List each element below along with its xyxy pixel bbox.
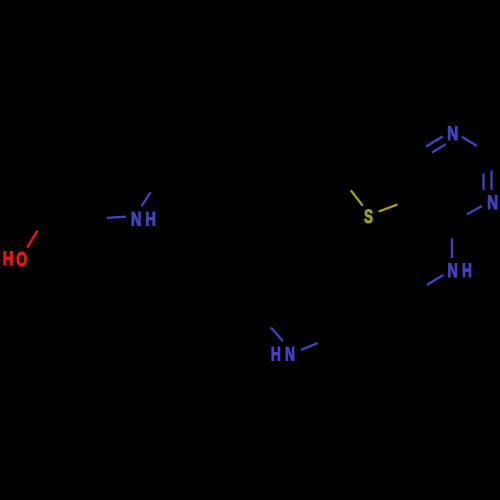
svg-text:H: H: [3, 247, 14, 269]
bond N3-C4 half (blue): [467, 206, 482, 214]
svg-text:N: N: [448, 260, 458, 282]
bond HN-C half right (blue): [301, 343, 318, 350]
bond C4-NH half (blue, vertical): [451, 239, 453, 259]
svg-text:S: S: [364, 207, 373, 228]
svg-text:H: H: [271, 343, 281, 365]
svg-text:H: H: [462, 259, 472, 281]
bond C2=N3 main half (blue, vertical): [490, 171, 492, 191]
svg-text:H: H: [145, 209, 156, 230]
bond NH-CH half (blue, down-left): [427, 275, 443, 285]
bond N1-C2 half (blue): [462, 137, 477, 146]
svg-text:N: N: [487, 191, 498, 213]
bond O-C half (red): [27, 231, 37, 248]
bond S-C4a half (olive, right of S): [379, 204, 398, 211]
svg-text:N: N: [285, 343, 295, 365]
svg-text:N: N: [131, 208, 142, 229]
bond NH-CH2 half (blue, up-right): [142, 192, 151, 206]
svg-text:N: N: [447, 122, 458, 144]
bond CH2-NH half (blue, horizontal): [107, 217, 126, 218]
bond C=N1 outer half (blue): [426, 136, 443, 146]
bond C-NH half into HN (blue): [271, 327, 283, 341]
svg-text:O: O: [16, 247, 27, 270]
bond C7a-S half (olive, upper-left of S): [351, 190, 363, 205]
bond C2=N3 inner half (blue, vertical): [482, 174, 484, 191]
bond C=N1 inner half (blue): [432, 144, 446, 152]
